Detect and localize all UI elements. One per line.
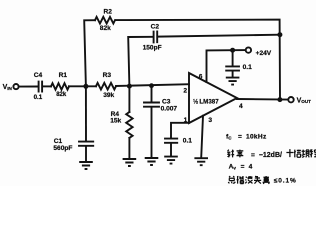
svg-text:=: = xyxy=(241,163,245,170)
svg-text:C4: C4 xyxy=(34,72,43,79)
svg-text:10kHz: 10kHz xyxy=(246,134,267,141)
svg-text:R3: R3 xyxy=(103,72,112,79)
svg-text:1: 1 xyxy=(184,117,188,124)
svg-text:R1: R1 xyxy=(59,72,68,79)
svg-text:0.1: 0.1 xyxy=(34,94,43,101)
svg-text:2: 2 xyxy=(183,87,187,94)
svg-text:≤0.1%: ≤0.1% xyxy=(274,178,297,185)
svg-text:0.1: 0.1 xyxy=(243,64,252,71)
svg-text:4: 4 xyxy=(249,163,253,170)
svg-text:–12dB/: –12dB/ xyxy=(259,152,282,159)
svg-text:VOUT: VOUT xyxy=(297,97,312,104)
svg-text:4: 4 xyxy=(239,103,243,110)
svg-text:150pF: 150pF xyxy=(143,44,162,51)
svg-text:6: 6 xyxy=(199,73,203,80)
svg-text:=: = xyxy=(238,134,242,141)
svg-text:½ LM387: ½ LM387 xyxy=(193,99,219,106)
svg-text:39k: 39k xyxy=(103,92,114,99)
svg-text:fC: fC xyxy=(226,134,232,141)
svg-text:82k: 82k xyxy=(56,92,67,98)
svg-text:VIN: VIN xyxy=(3,84,13,91)
svg-text:=: = xyxy=(251,152,255,159)
svg-text:C2: C2 xyxy=(151,24,160,31)
svg-text:560pF: 560pF xyxy=(53,145,72,152)
svg-text:0.1: 0.1 xyxy=(183,138,192,145)
svg-text:+24V: +24V xyxy=(256,50,272,57)
svg-text:Av: Av xyxy=(229,163,237,170)
svg-text:0.007: 0.007 xyxy=(161,105,178,112)
svg-text:82k: 82k xyxy=(100,25,111,32)
svg-text:R2: R2 xyxy=(104,9,113,16)
svg-text:15k: 15k xyxy=(110,118,121,125)
svg-text:3: 3 xyxy=(208,117,212,124)
